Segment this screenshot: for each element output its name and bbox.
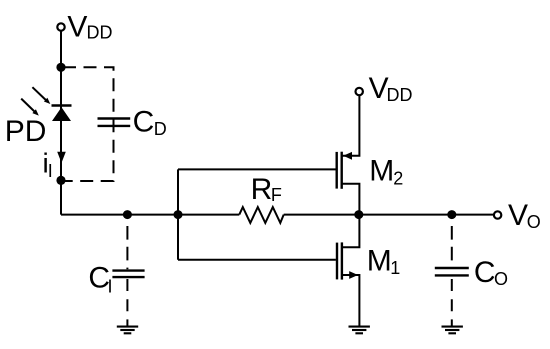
svg-text:V: V (508, 199, 528, 232)
svg-text:M: M (369, 154, 394, 187)
svg-text:I: I (108, 276, 113, 296)
svg-text:2: 2 (393, 169, 403, 189)
svg-text:1: 1 (390, 258, 400, 278)
svg-text:F: F (271, 185, 282, 205)
svg-text:V: V (67, 11, 87, 44)
svg-text:DD: DD (87, 23, 113, 43)
svg-text:C: C (474, 256, 496, 289)
svg-text:DD: DD (387, 85, 413, 105)
svg-text:C: C (133, 106, 155, 139)
svg-text:D: D (154, 119, 167, 139)
svg-text:M: M (367, 245, 392, 278)
svg-text:R: R (251, 173, 273, 206)
svg-text:O: O (527, 212, 541, 232)
svg-text:PD: PD (5, 115, 47, 148)
svg-text:I: I (48, 161, 53, 181)
svg-text:O: O (494, 269, 508, 289)
